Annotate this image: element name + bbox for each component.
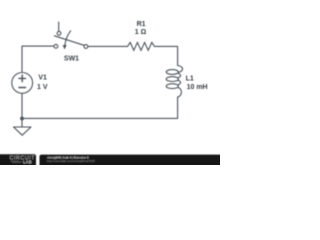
- ground: [14, 118, 32, 135]
- svg-text:LAB: LAB: [23, 159, 32, 164]
- switch SW1: [54, 22, 88, 49]
- wire: [22, 46, 54, 72]
- junction node: [20, 117, 24, 121]
- inductor L1: [166, 66, 182, 101]
- wire: [155, 46, 178, 65]
- svg-text:V1: V1: [38, 75, 47, 82]
- voltage source V1: [12, 73, 33, 94]
- watermark logo: [0, 154, 36, 167]
- svg-text:http:/​/circuitlab.com/c/sulg6: http:/​/circuitlab.com/c/sulg6hw27b3f: [47, 159, 95, 163]
- resistor R1: [128, 42, 155, 50]
- svg-text:SW1: SW1: [64, 55, 79, 62]
- svg-text:R1: R1: [137, 21, 146, 28]
- svg-text:10 mH: 10 mH: [187, 84, 208, 91]
- watermark text: [40, 155, 223, 168]
- svg-text:1 V: 1 V: [37, 84, 48, 91]
- svg-text:1 Ω: 1 Ω: [135, 29, 147, 36]
- wire: [88, 45, 127, 47]
- svg-text:L1: L1: [186, 76, 194, 83]
- wire: [21, 94, 23, 119]
- wire: [22, 100, 178, 118]
